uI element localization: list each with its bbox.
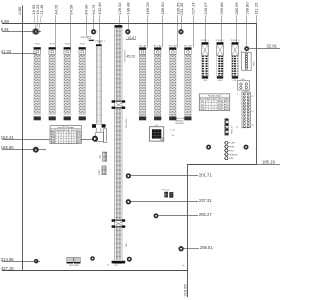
board outline: step edge	[187, 164, 257, 166]
central connector junction 1	[112, 100, 115, 102]
PCI slot left 1 (PCI6)	[34, 44, 41, 121]
svg-text:219.56: 219.56	[182, 283, 187, 296]
svg-text:211.35: 211.35	[179, 2, 184, 15]
extension line for 205.65	[177, 15, 179, 47]
extension line for 166.29	[147, 15, 149, 47]
PCI slot left 4 (PCI3)	[79, 44, 86, 121]
leader lines top-left cluster	[34, 15, 35, 28]
extension line for 64.58	[70, 15, 72, 47]
svg-text:2: 2	[208, 107, 209, 109]
central edge connector CN6/CN1 outline	[115, 25, 122, 263]
small black connector bar	[89, 40, 94, 41]
svg-text:243.07: 243.07	[203, 2, 208, 15]
dim 185.19	[257, 164, 281, 166]
dim line 165.80	[2, 149, 46, 151]
svg-text:PCI6: PCI6	[35, 44, 41, 46]
dim 32.81	[249, 48, 280, 50]
svg-text:13.67: 13.67	[127, 36, 136, 40]
svg-text:5: 5	[73, 142, 74, 144]
svg-text:165.80: 165.80	[1, 145, 14, 150]
svg-text:299.80: 299.80	[244, 2, 249, 15]
extension line for 44.26	[55, 15, 57, 47]
svg-text:186.50: 186.50	[160, 2, 165, 15]
svg-text:4x: 4x	[236, 127, 238, 129]
mounting hole bottom c	[128, 258, 131, 261]
dim 201.71	[131, 175, 198, 177]
thin connector end ears	[92, 124, 96, 128]
dim line 152.41	[2, 139, 93, 141]
PCI slot right 2 (PCI_A2)	[154, 45, 162, 121]
svg-text:SL3: SL3	[201, 107, 204, 109]
svg-text:327.19: 327.19	[1, 266, 14, 271]
svg-text:84.90: 84.90	[84, 4, 89, 15]
extension line for 186.50	[162, 15, 164, 47]
mounting hole top-right	[245, 47, 248, 50]
short slot PU3SL_2	[216, 40, 225, 82]
mounting hole bottom d	[179, 247, 183, 251]
mounting hole right row b	[244, 145, 247, 148]
svg-text:SL1: SL1	[201, 101, 204, 103]
board outline: left edge	[22, 5, 24, 271]
board outline: right lower edge	[187, 165, 189, 298]
svg-text:CN10: CN10	[217, 80, 223, 82]
svg-text:PU3SL_1: PU3SL_1	[201, 40, 210, 42]
extension line for 140.48	[128, 15, 130, 29]
svg-text:AD23: AD23	[224, 108, 229, 111]
svg-text:1 U24: 1 U24	[170, 129, 175, 131]
svg-text:102.46: 102.46	[97, 2, 102, 15]
svg-text:45.20: 45.20	[126, 55, 135, 59]
svg-text:2: 2	[214, 107, 215, 109]
bracket ring	[93, 137, 97, 141]
svg-text:PU3SL_2: PU3SL_2	[216, 40, 225, 42]
svg-text:32.81: 32.81	[267, 44, 278, 49]
svg-text:41.02: 41.02	[1, 49, 12, 54]
thin connector body	[96, 46, 101, 124]
central connector bottom cap	[112, 261, 115, 264]
extension line for 243.07	[205, 15, 207, 42]
extension line for 102.46	[99, 15, 101, 44]
board outline: right upper edge	[256, 24, 258, 165]
svg-text:INTC: INTC	[218, 107, 223, 109]
thin connector cap	[96, 44, 102, 46]
dim 13.67	[126, 39, 136, 41]
svg-text:265.88: 265.88	[219, 2, 224, 15]
svg-text:IDSEL: IDSEL	[224, 99, 229, 101]
svg-text:PCI4: PCI4	[65, 44, 71, 46]
central connector pin strip B	[116, 109, 118, 219]
extension line for 84.90	[86, 15, 88, 36]
PCI slot right 3 (PCI_A3)	[169, 45, 177, 121]
extension line for 265.88	[221, 15, 223, 42]
svg-text:255.27: 255.27	[199, 212, 212, 217]
svg-text:USB2: USB2	[99, 169, 101, 175]
svg-text:4: 4	[58, 142, 59, 144]
svg-text:PCI_A3: PCI_A3	[169, 45, 177, 48]
dim 255.27	[159, 215, 198, 217]
extension line for 211.35	[181, 15, 183, 29]
mounting hole right row a	[207, 145, 210, 148]
svg-text:PWRETH: PWRETH	[229, 154, 238, 156]
table PCI Bus Table	[199, 94, 230, 111]
mounting hole bottom b	[91, 257, 94, 260]
mounting hole mid c	[154, 214, 157, 217]
svg-text:INTD: INTD	[218, 109, 223, 111]
svg-text:2 USB AD27: 2 USB AD27	[175, 122, 185, 125]
svg-text:298.51: 298.51	[200, 245, 213, 250]
extension line for 227.14	[193, 15, 195, 47]
svg-text:CN1: CN1	[126, 242, 128, 247]
extension line for 94.73	[93, 15, 95, 29]
svg-text:PCI_A4: PCI_A4	[184, 45, 192, 48]
svg-text:129.02: 129.02	[117, 2, 122, 15]
dim line 314.96	[2, 261, 40, 263]
svg-text:311.15: 311.15	[254, 2, 259, 15]
svg-text:3: 3	[208, 109, 209, 111]
svg-text:PCI_A1: PCI_A1	[139, 45, 147, 48]
svg-text:285.56: 285.56	[234, 2, 239, 15]
svg-text:64.58: 64.58	[68, 4, 73, 15]
svg-text:140.48: 140.48	[126, 2, 131, 15]
mounting hole mid b	[127, 200, 131, 204]
svg-text:PCI3: PCI3	[80, 44, 86, 46]
svg-text:ROUT: ROUT	[229, 150, 235, 152]
svg-text:PCI5: PCI5	[51, 142, 55, 144]
power connector PWR1	[240, 51, 255, 71]
svg-text:9.91: 9.91	[1, 27, 10, 32]
svg-text:PCI5: PCI5	[50, 44, 56, 46]
svg-text:PU3SL_3: PU3SL_3	[231, 40, 240, 42]
central connector top cap	[115, 25, 123, 27]
PCI slot left 3 (PCI4)	[64, 44, 71, 121]
tiny fiducial dot	[183, 265, 184, 266]
svg-text:REQ: REQ	[206, 99, 210, 101]
svg-text:HT8211A: HT8211A	[161, 188, 169, 191]
svg-text:TEST PAD: TEST PAD	[69, 264, 79, 267]
mounting hole left-mid	[34, 148, 38, 152]
dim 45.20	[124, 50, 126, 62]
BGA chip U10	[149, 125, 163, 141]
mounting hole x181	[179, 30, 182, 33]
svg-text:0.80: 0.80	[1, 19, 10, 24]
central connector pin strip C	[116, 228, 118, 261]
svg-text:185.19: 185.19	[262, 160, 275, 165]
svg-text:0.80: 0.80	[17, 6, 22, 15]
svg-text:201.71: 201.71	[199, 172, 212, 177]
dim 237.31	[131, 201, 198, 203]
dim line 9.91	[2, 31, 41, 33]
svg-text:PWR12: PWR12	[80, 37, 88, 39]
svg-text:21.49: 21.49	[39, 4, 44, 15]
svg-text:PWR5: PWR5	[229, 147, 236, 149]
dim line 41.02	[2, 53, 37, 55]
mounting hole x128	[126, 30, 129, 33]
extension line for 129.02	[119, 15, 121, 25]
svg-text:DI+SIG: DI+SIG	[229, 143, 236, 145]
dim 298.51	[184, 248, 199, 250]
mounting hole top-left	[32, 29, 39, 35]
jumper block PWR_5V	[225, 118, 234, 135]
table Local PCI Routing	[50, 126, 81, 145]
svg-text:227.14: 227.14	[191, 2, 196, 15]
svg-text:3: 3	[214, 109, 215, 111]
extension line for 285.56	[236, 15, 238, 42]
svg-text:0: 0	[208, 101, 209, 103]
svg-text:AD27: AD27	[77, 141, 82, 144]
PCI slot right 1 (PCI_A1)	[139, 45, 147, 121]
svg-text:314.96: 314.96	[1, 257, 14, 262]
board outline: bottom edge	[2, 270, 188, 272]
svg-text:CN6 CPU: CN6 CPU	[126, 118, 128, 128]
svg-text:0: 0	[214, 101, 215, 103]
short slot PU3SL_3	[231, 40, 240, 82]
svg-text:166.29: 166.29	[145, 2, 150, 15]
mounting hole x94	[92, 30, 95, 33]
board outline: top edge	[2, 23, 257, 25]
mounting hole bottom a	[35, 260, 38, 263]
test pads	[67, 257, 81, 267]
svg-text:94.73: 94.73	[91, 4, 96, 15]
svg-text:PCI_A2: PCI_A2	[154, 45, 162, 48]
svg-text:7.0M: 7.0M	[229, 158, 234, 160]
svg-text:237.31: 237.31	[199, 198, 212, 203]
short slot PU3SL_1	[201, 40, 210, 82]
pin header CN3 2x12	[236, 91, 254, 129]
central connector pin strip A	[116, 28, 118, 100]
mounting hole mid a	[127, 174, 131, 178]
svg-text:PWR_5V: PWR_5V	[232, 125, 234, 134]
svg-text:SL4: SL4	[201, 109, 204, 111]
PCI slot right 4 (PCI_A4)	[184, 45, 192, 121]
central connector junction 2	[112, 219, 115, 221]
PCI slot left 2 (PCI5)	[49, 44, 56, 121]
extension line for 299.80	[246, 15, 248, 46]
extension line for 311.15	[256, 15, 258, 24]
bracket outline	[96, 128, 98, 132]
svg-text:152.41: 152.41	[1, 135, 14, 140]
pad column DI/PWR	[224, 141, 238, 160]
svg-text:4: 4	[63, 142, 64, 144]
svg-text:44.26: 44.26	[53, 4, 58, 15]
